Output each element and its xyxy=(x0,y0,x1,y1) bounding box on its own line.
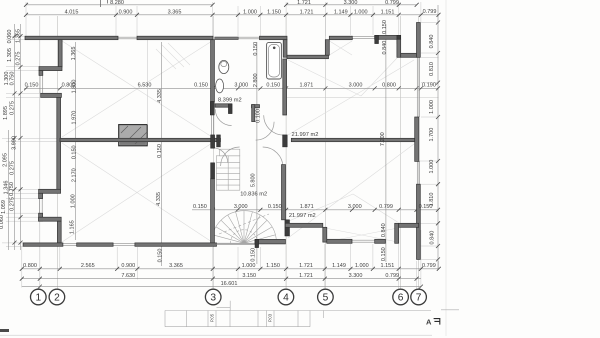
vertical dim texts interior col x386 xyxy=(380,20,388,261)
left step wall lower xyxy=(39,217,62,221)
window glazing lines xyxy=(40,36,420,245)
bathroom door jamb east xyxy=(228,104,232,114)
bottom inset wall right xyxy=(285,223,323,227)
svg-text:1.000: 1.000 xyxy=(243,10,257,16)
top wall above bathroom xyxy=(215,37,238,40)
svg-text:10.836 m2: 10.836 m2 xyxy=(240,192,267,198)
svg-text:1.000: 1.000 xyxy=(354,10,368,16)
svg-text:3.000: 3.000 xyxy=(349,83,363,89)
svg-text:0.100: 0.100 xyxy=(256,109,262,123)
left step stub upper xyxy=(39,193,43,198)
svg-text:1: 1 xyxy=(35,293,41,304)
stair up dashed line xyxy=(219,214,269,234)
left wall main vertical xyxy=(57,97,61,189)
svg-text:1.800: 1.800 xyxy=(71,80,77,94)
svg-text:7: 7 xyxy=(416,293,422,304)
svg-text:3.300: 3.300 xyxy=(344,0,358,6)
left step stub lower xyxy=(39,213,43,221)
svg-text:21.997 m2: 21.997 m2 xyxy=(289,213,316,219)
svg-text:1.151: 1.151 xyxy=(381,10,395,16)
svg-text:0.799: 0.799 xyxy=(385,0,399,6)
svg-text:0.799: 0.799 xyxy=(422,263,436,269)
svg-text:2.565: 2.565 xyxy=(81,263,95,269)
inset wall to right outer xyxy=(401,53,417,57)
svg-text:1.000: 1.000 xyxy=(429,100,435,114)
inset wall top right room xyxy=(287,55,329,59)
svg-text:1.150: 1.150 xyxy=(266,263,280,269)
grid axis lines xyxy=(40,16,419,289)
grid axis circle 7 xyxy=(411,289,427,305)
grid axis circle 4 xyxy=(278,289,294,305)
dimension lines xyxy=(9,5,439,287)
door arc stair room left leaf xyxy=(221,147,240,166)
svg-text:0.150: 0.150 xyxy=(250,248,256,262)
door arc hall middle xyxy=(256,122,274,140)
right outer wall mid segment xyxy=(415,117,419,161)
svg-text:3.150: 3.150 xyxy=(242,273,256,279)
svg-text:0.750: 0.750 xyxy=(10,72,16,86)
stair room west wall mid block xyxy=(211,163,215,179)
top left partial marks xyxy=(101,0,108,7)
svg-text:4: 4 xyxy=(283,293,289,304)
svg-text:0.150: 0.150 xyxy=(157,144,163,158)
svg-text:3.300: 3.300 xyxy=(349,273,363,279)
svg-text:3: 3 xyxy=(210,293,216,304)
svg-text:1.149: 1.149 xyxy=(332,263,346,269)
svg-text:1.700: 1.700 xyxy=(429,128,435,142)
svg-text:0.150: 0.150 xyxy=(266,83,280,89)
svg-text:0.275: 0.275 xyxy=(10,161,16,175)
svg-text:0.190: 0.190 xyxy=(422,83,436,89)
interior dim line upper xyxy=(24,87,439,89)
left niche stub xyxy=(39,71,43,76)
door arc bedroom right xyxy=(264,115,284,135)
bathroom door jamb west xyxy=(210,102,214,115)
grid axis circle 1 xyxy=(31,289,47,305)
svg-text:0.800: 0.800 xyxy=(23,263,37,269)
svg-text:1.871: 1.871 xyxy=(300,83,314,89)
svg-text:0.150: 0.150 xyxy=(268,204,282,210)
left margin extension lines xyxy=(2,36,58,246)
bottom inset wall to right outer xyxy=(399,223,419,227)
bathroom east wall xyxy=(283,59,287,115)
dimension extension lines top xyxy=(26,2,421,36)
vertical jog bottom right 2 xyxy=(395,223,399,243)
svg-text:1.305: 1.305 xyxy=(7,48,13,62)
svg-text:6.530: 6.530 xyxy=(138,83,152,89)
right outer wall low segment xyxy=(417,184,421,259)
bottom wall west segment xyxy=(23,243,63,246)
svg-text:5: 5 xyxy=(323,293,329,304)
svg-text:0.150: 0.150 xyxy=(253,42,259,56)
toilet xyxy=(219,60,229,73)
vertical jog at grid5 top xyxy=(325,40,329,56)
bottom dim text rowB xyxy=(121,273,399,279)
hall stub wall top xyxy=(252,105,260,108)
svg-text:0.900: 0.900 xyxy=(121,263,135,269)
svg-text:7.630: 7.630 xyxy=(121,273,135,279)
stair room west wall lower xyxy=(211,179,215,244)
svg-text:8.399 m2: 8.399 m2 xyxy=(218,97,242,103)
svg-text:3.000: 3.000 xyxy=(348,204,362,210)
bottom wall right stub xyxy=(375,239,386,243)
svg-text:4.335: 4.335 xyxy=(156,192,162,206)
top wall west segment xyxy=(25,36,118,40)
svg-text:0.840: 0.840 xyxy=(382,41,388,55)
bathroom west wall xyxy=(211,40,215,102)
top wall far right segment xyxy=(375,35,401,39)
svg-text:1.721: 1.721 xyxy=(299,263,313,269)
svg-text:21.997 m2: 21.997 m2 xyxy=(292,132,319,138)
svg-text:3.990: 3.990 xyxy=(12,136,18,150)
svg-text:3.000: 3.000 xyxy=(234,83,248,89)
left margin vertical dim texts xyxy=(0,29,22,229)
svg-text:0.799: 0.799 xyxy=(423,9,437,15)
left niche wall xyxy=(39,67,62,71)
dimension ticks xyxy=(13,3,441,289)
svg-text:0.150: 0.150 xyxy=(381,247,387,261)
right margin extension lines xyxy=(415,23,439,260)
svg-text:2: 2 xyxy=(54,293,60,304)
svg-text:1.721: 1.721 xyxy=(297,0,311,6)
interior dim text lower row xyxy=(193,204,432,210)
svg-text:7.200: 7.200 xyxy=(380,132,386,146)
top wall segment grid5 xyxy=(329,36,352,40)
svg-text:4.335: 4.335 xyxy=(157,89,163,103)
svg-text:1.150: 1.150 xyxy=(267,10,281,16)
svg-text:0.150: 0.150 xyxy=(158,249,164,263)
interior long wall west part xyxy=(60,138,220,141)
bottom wall segment 3 xyxy=(135,243,217,246)
interior vertical dim lines xyxy=(161,42,163,266)
svg-text:A: A xyxy=(426,318,432,327)
door arc left room to stair xyxy=(213,148,228,163)
svg-text:0.750: 0.750 xyxy=(9,182,15,196)
grid axis circle 3 xyxy=(205,289,221,305)
bottom dim line rowC xyxy=(22,286,421,288)
lower fragment rotated small texts xyxy=(210,313,273,322)
svg-text:0.150: 0.150 xyxy=(193,204,207,210)
stair room east wall xyxy=(282,165,286,220)
svg-text:16.601: 16.601 xyxy=(221,281,238,287)
interior dim text upper row xyxy=(25,83,436,89)
grid axis circle 2 xyxy=(49,289,65,305)
spiral stair fan xyxy=(212,211,277,244)
bottom thin sill under stair room xyxy=(217,243,259,245)
interior wall cap west xyxy=(217,135,221,147)
vertical dim texts interior col x161 xyxy=(156,89,163,262)
svg-text:0.840: 0.840 xyxy=(429,35,435,49)
left step wall xyxy=(39,189,61,193)
top dim line row1 xyxy=(26,4,213,6)
svg-text:0.060: 0.060 xyxy=(7,30,13,44)
svg-text:1.810: 1.810 xyxy=(429,193,435,207)
stair room south wall cap xyxy=(255,239,259,247)
svg-text:5.800: 5.800 xyxy=(250,173,256,187)
bathroom south wall xyxy=(215,104,232,107)
bottom wall segment 2 xyxy=(77,243,113,246)
svg-text:0.060: 0.060 xyxy=(0,215,5,229)
bottom page edge line xyxy=(0,334,432,336)
svg-text:1.970: 1.970 xyxy=(72,111,78,125)
room labels xyxy=(218,97,319,219)
left wall corner piece xyxy=(41,93,62,97)
stair room SE corner block xyxy=(285,220,290,236)
svg-text:0.150: 0.150 xyxy=(25,83,39,89)
svg-text:0.900: 0.900 xyxy=(119,10,133,16)
svg-text:1.895: 1.895 xyxy=(3,106,9,120)
svg-text:0.799: 0.799 xyxy=(379,204,393,210)
svg-text:1.000: 1.000 xyxy=(355,263,369,269)
svg-text:2.800: 2.800 xyxy=(253,73,259,87)
top dim text row2 xyxy=(65,9,437,16)
stair room west wall upper block xyxy=(211,135,215,148)
svg-text:3.365: 3.365 xyxy=(168,10,182,16)
bottom dim line rowA xyxy=(22,268,439,270)
interior long wall east part xyxy=(291,138,414,141)
svg-text:0.275: 0.275 xyxy=(10,197,16,211)
svg-text:1.000: 1.000 xyxy=(429,160,435,174)
svg-text:1.365: 1.365 xyxy=(71,47,77,61)
grid axis circle 5 xyxy=(318,289,334,305)
bottom wall right segment xyxy=(327,239,352,243)
svg-text:4.015: 4.015 xyxy=(65,10,79,16)
top dim text row1 xyxy=(110,0,399,6)
svg-text:1.151: 1.151 xyxy=(381,263,395,269)
svg-text:2.170: 2.170 xyxy=(72,168,78,182)
page edge line xyxy=(445,0,447,336)
svg-text:8.280: 8.280 xyxy=(110,0,124,6)
stair room south wall xyxy=(255,239,285,244)
bottom left smudge xyxy=(0,329,9,332)
door arc bathroom xyxy=(215,109,231,125)
vertical jog at grid6 top xyxy=(397,39,401,57)
svg-text:P.05: P.05 xyxy=(210,313,215,322)
svg-text:0.810: 0.810 xyxy=(429,62,435,76)
lower sheet fragment table line xyxy=(165,310,459,327)
svg-text:1.000: 1.000 xyxy=(71,194,77,208)
svg-text:1.149: 1.149 xyxy=(334,10,348,16)
svg-text:1.165: 1.165 xyxy=(69,220,75,234)
right margin dim line xyxy=(437,5,439,270)
left wall lower vertical xyxy=(57,221,61,243)
jamb right xyxy=(397,35,401,43)
svg-text:1.721: 1.721 xyxy=(300,10,314,16)
faint room diagonals xyxy=(62,41,414,242)
kitchen stove block xyxy=(119,40,148,146)
svg-text:3.000: 3.000 xyxy=(234,204,248,210)
bracket mark under circle 3 xyxy=(217,301,231,311)
top wall segment E of bath window xyxy=(260,36,288,40)
bottom dim line rowB xyxy=(22,278,421,280)
door arc stair room right leaf xyxy=(263,147,283,167)
staircase straight flight treads xyxy=(216,149,240,190)
vertical dim texts interior col x257 xyxy=(250,42,261,262)
hall stub wall vertical xyxy=(252,105,255,122)
svg-text:0.275: 0.275 xyxy=(10,101,16,115)
svg-text:0.150: 0.150 xyxy=(382,20,388,34)
top wall mid segment xyxy=(137,36,213,40)
svg-text:1.059: 1.059 xyxy=(1,200,7,214)
sink xyxy=(216,79,224,93)
svg-text:0.150: 0.150 xyxy=(194,83,208,89)
right outer wall top segment xyxy=(417,23,421,58)
bathtub xyxy=(267,42,282,79)
interior dim line lower xyxy=(192,209,439,211)
svg-text:3.365: 3.365 xyxy=(169,263,183,269)
svg-text:1.365: 1.365 xyxy=(16,29,22,43)
svg-text:1.871: 1.871 xyxy=(300,204,314,210)
left wall upper vertical xyxy=(58,40,62,67)
sheet mark A3 xyxy=(426,318,440,327)
svg-text:0.840: 0.840 xyxy=(429,231,435,245)
svg-text:1.721: 1.721 xyxy=(299,273,313,279)
vertical jog at grid4 top xyxy=(283,40,287,58)
vertical dim texts interior col x75 xyxy=(69,47,77,234)
svg-text:0.150: 0.150 xyxy=(72,145,78,159)
svg-text:6: 6 xyxy=(398,293,404,304)
svg-text:0.799: 0.799 xyxy=(385,273,399,279)
svg-text:0.840: 0.840 xyxy=(381,223,387,237)
vertical jog bottom right 1 xyxy=(323,227,327,242)
svg-text:2.095: 2.095 xyxy=(3,153,9,167)
interior wall cap east xyxy=(283,135,288,147)
dimension extension lines bottom xyxy=(22,230,439,289)
bottom dim text rowA xyxy=(23,263,436,269)
svg-text:0.275: 0.275 xyxy=(16,52,22,66)
svg-text:P.03: P.03 xyxy=(268,313,273,322)
top dim line row2 xyxy=(26,14,439,16)
right margin vertical dim texts xyxy=(429,35,435,245)
svg-text:0.800: 0.800 xyxy=(382,83,396,89)
left margin dim lines xyxy=(8,130,10,250)
grid axis circle 6 xyxy=(393,289,409,305)
jamb left xyxy=(375,35,379,43)
svg-text:1.000: 1.000 xyxy=(242,263,256,269)
